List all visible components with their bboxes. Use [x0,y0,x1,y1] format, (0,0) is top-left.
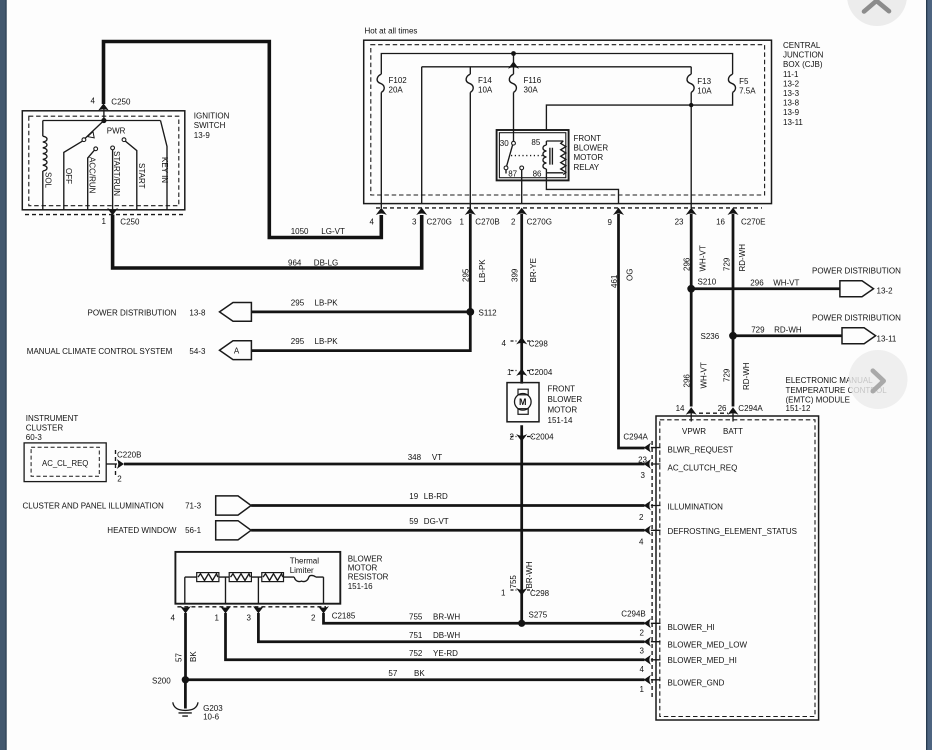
svg-text:MOTOR: MOTOR [574,153,604,162]
svg-text:F13: F13 [697,77,711,86]
svg-text:ACC/RUN: ACC/RUN [88,157,97,194]
svg-text:19: 19 [409,492,418,501]
svg-text:295: 295 [291,337,305,346]
svg-text:DB-WH: DB-WH [433,631,460,640]
svg-text:ILLUMINATION: ILLUMINATION [668,503,724,512]
svg-text:KEY IN: KEY IN [160,157,169,183]
svg-text:13-2: 13-2 [783,79,800,88]
svg-text:Thermal: Thermal [290,557,320,566]
svg-text:3: 3 [412,217,417,226]
svg-text:BLOWER: BLOWER [574,144,609,153]
svg-text:BLOWER_MED_LOW: BLOWER_MED_LOW [668,640,748,649]
svg-text:C250: C250 [120,218,140,227]
svg-text:86: 86 [533,170,542,179]
svg-text:56-1: 56-1 [185,526,202,535]
svg-text:RD-WH: RD-WH [774,325,802,334]
svg-text:755: 755 [509,575,518,589]
svg-text:71-3: 71-3 [185,501,202,510]
svg-text:20A: 20A [389,86,404,95]
svg-text:1: 1 [215,613,220,622]
svg-text:POWER DISTRIBUTION: POWER DISTRIBUTION [812,267,901,276]
svg-text:3: 3 [247,613,252,622]
svg-text:BK: BK [189,651,198,662]
svg-text:755: 755 [409,613,423,622]
svg-text:INSTRUMENT: INSTRUMENT [26,414,79,423]
svg-text:HEATED WINDOW: HEATED WINDOW [107,526,177,535]
svg-text:C294A: C294A [738,404,763,413]
svg-text:VT: VT [432,453,442,462]
svg-text:RESISTOR: RESISTOR [348,573,389,582]
svg-text:399: 399 [510,268,519,282]
svg-text:1: 1 [501,589,506,598]
svg-text:4: 4 [502,339,507,348]
svg-text:14: 14 [676,404,685,413]
svg-text:OG: OG [626,269,635,281]
svg-text:461: 461 [610,274,619,288]
svg-text:RD-WH: RD-WH [738,244,747,272]
svg-text:13-9: 13-9 [194,131,211,140]
svg-text:BATT: BATT [723,427,743,436]
svg-text:LB-PK: LB-PK [315,337,339,346]
svg-text:LB-RD: LB-RD [424,492,448,501]
svg-text:C270B: C270B [475,217,499,226]
svg-text:2: 2 [117,475,122,484]
svg-text:C294B: C294B [621,610,645,619]
svg-text:295: 295 [461,268,470,282]
svg-text:2: 2 [511,217,516,226]
svg-text:964: 964 [288,258,302,267]
svg-text:POWER DISTRIBUTION: POWER DISTRIBUTION [88,308,177,317]
svg-text:151-12: 151-12 [786,404,811,413]
svg-text:S210: S210 [698,278,717,287]
svg-text:3: 3 [641,471,646,480]
svg-text:YE-RD: YE-RD [433,649,458,658]
svg-text:S200: S200 [152,677,171,686]
svg-text:OFF: OFF [64,168,73,184]
svg-text:M: M [519,397,527,407]
svg-text:LB-PK: LB-PK [478,259,487,283]
svg-text:S275: S275 [529,610,548,619]
svg-text:BR-WH: BR-WH [525,561,534,588]
svg-text:BOX (CJB): BOX (CJB) [783,60,823,69]
svg-text:C294A: C294A [623,433,648,442]
svg-text:4: 4 [639,537,644,546]
svg-text:SWITCH: SWITCH [194,121,226,130]
svg-text:DEFROSTING_ELEMENT_STATUS: DEFROSTING_ELEMENT_STATUS [668,527,798,536]
svg-text:348: 348 [408,453,422,462]
svg-text:16: 16 [716,217,725,226]
svg-text:23: 23 [638,455,647,464]
svg-text:BLOWER_MED_HI: BLOWER_MED_HI [668,656,737,665]
svg-text:C270E: C270E [741,217,765,226]
svg-text:2: 2 [639,513,644,522]
svg-text:295: 295 [291,298,305,307]
svg-text:JUNCTION: JUNCTION [783,51,824,60]
svg-text:BLOWER: BLOWER [548,395,583,404]
svg-text:AC_CLUTCH_REQ: AC_CLUTCH_REQ [668,463,738,472]
svg-text:23: 23 [675,217,684,226]
svg-text:4: 4 [171,613,176,622]
svg-text:START: START [137,163,146,189]
svg-text:729: 729 [723,257,732,271]
svg-text:751: 751 [409,631,423,640]
svg-text:FRONT: FRONT [548,385,576,394]
svg-text:C250: C250 [111,97,131,106]
svg-text:296: 296 [682,374,691,388]
svg-text:S112: S112 [479,309,498,318]
svg-text:30: 30 [500,139,509,148]
svg-text:DB-LG: DB-LG [314,258,338,267]
svg-text:WH-VT: WH-VT [773,278,799,287]
svg-text:FRONT: FRONT [574,134,602,143]
svg-text:LB-PK: LB-PK [315,298,339,307]
svg-text:85: 85 [531,138,540,147]
svg-text:2: 2 [311,613,316,622]
svg-text:BLOWER_GND: BLOWER_GND [668,679,725,688]
svg-text:13-8: 13-8 [189,308,206,317]
svg-text:C298: C298 [529,339,549,348]
svg-text:13-3: 13-3 [783,89,800,98]
svg-text:729: 729 [722,368,731,382]
svg-text:729: 729 [751,325,765,334]
svg-text:296: 296 [750,278,764,287]
svg-text:IGNITION: IGNITION [194,112,230,121]
svg-text:2: 2 [510,433,515,442]
svg-text:60-3: 60-3 [26,433,43,442]
svg-text:F5: F5 [739,77,749,86]
svg-text:7.5A: 7.5A [739,86,756,95]
svg-text:57: 57 [175,653,184,662]
svg-text:VPWR: VPWR [682,427,706,436]
svg-text:A: A [234,346,240,355]
svg-text:CLUSTER: CLUSTER [26,423,64,432]
svg-text:26: 26 [718,404,727,413]
svg-text:PWR: PWR [107,127,126,136]
svg-text:C270G: C270G [427,217,452,226]
svg-text:BK: BK [414,669,425,678]
svg-text:C270G: C270G [527,217,552,226]
svg-text:C298: C298 [530,589,550,598]
svg-text:2: 2 [640,628,645,637]
svg-text:BR-WH: BR-WH [433,613,460,622]
svg-text:BLOWER: BLOWER [348,554,383,563]
svg-text:BLOWER_HI: BLOWER_HI [668,623,715,632]
svg-text:10A: 10A [478,86,493,95]
svg-text:4: 4 [640,665,645,674]
svg-text:C220B: C220B [117,450,141,459]
svg-text:MANUAL CLIMATE CONTROL SYSTEM: MANUAL CLIMATE CONTROL SYSTEM [27,347,173,356]
svg-text:F14: F14 [478,76,492,85]
svg-text:9: 9 [608,218,613,227]
svg-text:59: 59 [409,517,418,526]
svg-text:S236: S236 [701,332,720,341]
svg-text:MOTOR: MOTOR [348,564,378,573]
svg-text:30A: 30A [524,86,539,95]
svg-text:C2004: C2004 [530,433,554,442]
svg-text:13-9: 13-9 [783,108,800,117]
svg-text:10-6: 10-6 [203,713,220,722]
svg-text:13-11: 13-11 [783,118,803,127]
svg-text:BR-YE: BR-YE [529,258,538,282]
svg-text:CENTRAL: CENTRAL [783,41,821,50]
svg-text:BLWR_REQUEST: BLWR_REQUEST [668,445,734,454]
svg-text:F102: F102 [389,76,408,85]
svg-text:10A: 10A [697,86,712,95]
svg-text:F116: F116 [524,76,542,85]
svg-text:DG-VT: DG-VT [424,517,449,526]
svg-text:3: 3 [640,647,645,656]
svg-text:1: 1 [640,685,645,694]
svg-text:13-2: 13-2 [877,287,894,296]
svg-text:START/RUN: START/RUN [112,151,121,196]
svg-text:151-14: 151-14 [548,416,573,425]
svg-text:11-1: 11-1 [783,70,799,79]
svg-text:54-3: 54-3 [189,347,206,356]
svg-text:296: 296 [683,257,692,271]
svg-text:1: 1 [102,217,107,226]
svg-text:151-16: 151-16 [348,582,373,591]
svg-text:RELAY: RELAY [574,163,600,172]
svg-text:1050: 1050 [291,227,309,236]
svg-text:1: 1 [507,368,512,377]
svg-text:CLUSTER AND PANEL ILLUMINATION: CLUSTER AND PANEL ILLUMINATION [23,501,164,510]
svg-text:WH-VT: WH-VT [699,245,708,271]
svg-text:87: 87 [508,170,517,179]
svg-text:C2185: C2185 [332,612,356,621]
svg-text:SOL: SOL [44,172,53,189]
svg-text:C2004: C2004 [529,368,553,377]
svg-text:752: 752 [409,649,423,658]
svg-text:4: 4 [370,217,375,226]
svg-text:57: 57 [388,669,397,678]
svg-text:RD-WH: RD-WH [742,362,751,390]
svg-text:Limiter: Limiter [290,566,314,575]
svg-text:1: 1 [460,217,465,226]
svg-text:13-8: 13-8 [783,99,800,108]
svg-text:4: 4 [91,97,96,106]
svg-text:MOTOR: MOTOR [548,406,578,415]
svg-text:WH-VT: WH-VT [700,362,709,388]
svg-text:Hot at all times: Hot at all times [365,27,418,36]
svg-text:13-11: 13-11 [877,334,897,343]
svg-text:AC_CL_REQ: AC_CL_REQ [42,459,88,468]
svg-text:LG-VT: LG-VT [321,227,345,236]
svg-text:POWER DISTRIBUTION: POWER DISTRIBUTION [812,314,901,323]
